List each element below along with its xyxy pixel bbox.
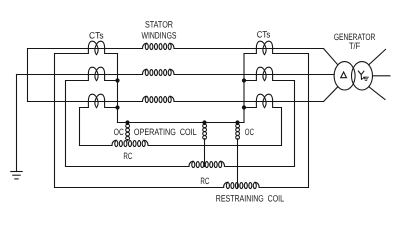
svg-text:RC: RC [123, 151, 132, 161]
svg-text:OC: OC [245, 127, 254, 137]
svg-text:T/F: T/F [349, 41, 361, 51]
svg-text:RESTRAINING COIL: RESTRAINING COIL [216, 193, 284, 203]
svg-text:RC: RC [200, 176, 209, 186]
svg-text:CTs: CTs [257, 30, 271, 40]
svg-text:WINDINGS: WINDINGS [142, 31, 177, 41]
svg-text:OPERATING COIL: OPERATING COIL [134, 127, 197, 137]
svg-text:STATOR: STATOR [145, 19, 173, 29]
svg-text:CTs: CTs [89, 30, 104, 40]
svg-text:OC: OC [114, 127, 124, 137]
